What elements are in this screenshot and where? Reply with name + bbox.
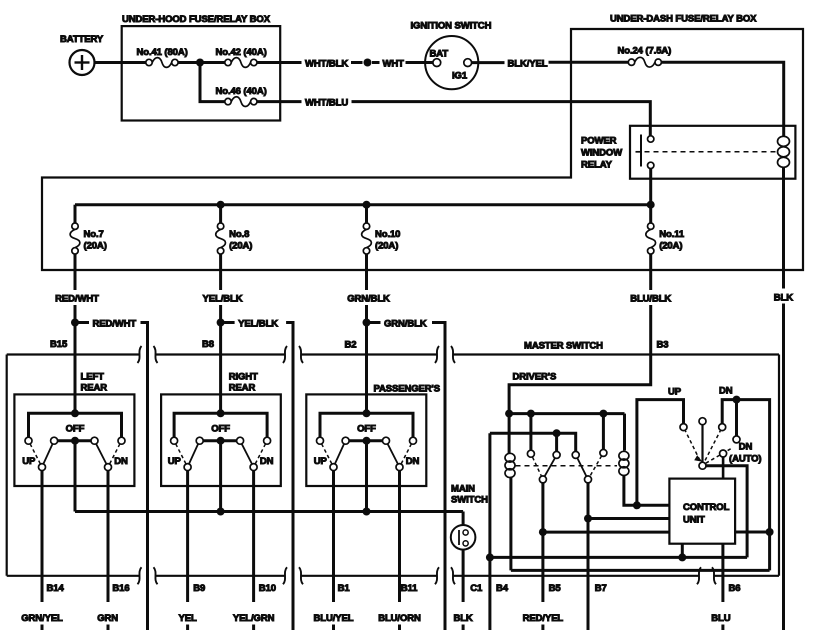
B15 label — [50, 339, 68, 350]
MAIN SWITCH label — [451, 484, 488, 506]
right rear centre node — [217, 437, 225, 445]
main switch output wire BLK — [462, 550, 465, 630]
B9 label — [193, 583, 205, 594]
svg-text:DN: DN — [114, 456, 128, 467]
band right edge (master switch) — [778, 355, 780, 576]
fuse No.11 label — [659, 229, 685, 252]
svg-text:No.11: No.11 — [659, 229, 685, 240]
right rear DN output wire — [252, 471, 255, 630]
wire fuse24 to relay coil — [661, 62, 783, 136]
WHT/BLU label — [305, 98, 348, 109]
BLK/YEL label — [508, 59, 548, 70]
svg-text:MASTER SWITCH: MASTER SWITCH — [524, 341, 603, 352]
svg-text:BLU/YEL: BLU/YEL — [314, 613, 354, 624]
svg-text:UNDER-DASH FUSE/RELAY BOX: UNDER-DASH FUSE/RELAY BOX — [610, 14, 757, 25]
svg-text:YEL/BLK: YEL/BLK — [238, 319, 278, 330]
svg-text:No.7: No.7 — [84, 229, 104, 240]
branch stub RED/WHT — [79, 321, 90, 324]
svg-text:B8: B8 — [202, 339, 214, 350]
svg-text:DRIVER'S: DRIVER'S — [513, 372, 557, 383]
splice node on WHT wire — [364, 59, 380, 67]
PASSENGER'S label — [374, 384, 440, 395]
relay coil — [778, 136, 790, 167]
left rear switch top bar — [29, 413, 122, 437]
svg-text:DN: DN — [260, 456, 274, 467]
passenger's mid contact right — [383, 437, 390, 444]
BLK label (main switch) — [453, 613, 472, 624]
B1 label — [338, 583, 351, 594]
driver contact c1 — [527, 450, 534, 457]
passenger's wiper right — [388, 444, 398, 464]
svg-text:(20A): (20A) — [84, 241, 107, 252]
svg-text:UP: UP — [314, 456, 328, 467]
svg-text:WHT: WHT — [383, 59, 405, 70]
RIGHT REAR label — [229, 372, 258, 394]
control unit bottom stub — [681, 544, 684, 558]
passenger's lower contact right — [396, 464, 403, 471]
fuse No.7 label — [84, 229, 107, 252]
svg-text:B5: B5 — [549, 583, 562, 594]
B11 label — [401, 583, 418, 594]
bus3 node B4 — [486, 553, 494, 561]
right rear switch box — [161, 394, 281, 486]
passenger's outer contact right — [410, 437, 417, 444]
UP wire bracket — [637, 400, 684, 506]
bus1 corner to right coil — [623, 414, 626, 451]
branch label RED/WHT — [93, 319, 137, 330]
YEL/GRN label — [233, 613, 275, 624]
svg-text:RED/YEL: RED/YEL — [523, 613, 564, 624]
splice node YEL/BLK — [217, 319, 225, 327]
battery B1 (+ terminal) — [70, 50, 95, 75]
wire below fuse No.11 — [649, 254, 652, 290]
right rear switch top bar — [174, 413, 267, 437]
left rear outer contact right — [118, 437, 125, 444]
wire below fuse No.10 — [365, 254, 368, 290]
left rear switch input node — [71, 409, 79, 417]
bus3 node control unit — [678, 553, 686, 561]
control unit label — [683, 502, 730, 526]
pivot output wire — [706, 466, 747, 558]
branch corner GRN/BLK — [432, 323, 445, 630]
svg-text:No.41 (80A): No.41 (80A) — [137, 47, 188, 58]
B7 label — [595, 583, 607, 594]
svg-text:(20A): (20A) — [659, 241, 682, 252]
under-dash fuse/relay box (L-shape) — [42, 29, 803, 270]
wire to splice — [351, 61, 363, 64]
passenger's DN output wire — [398, 471, 401, 630]
UP label (driver) — [668, 387, 682, 398]
passenger's dashed throw right — [401, 444, 411, 464]
BLU/ORN label — [378, 613, 421, 624]
branch corner YEL/BLK — [286, 323, 293, 630]
left rear UP label — [22, 456, 36, 467]
YEL/BLK label — [203, 294, 243, 305]
left rear UP output wire — [41, 471, 44, 630]
passenger's UP output wire — [332, 471, 335, 630]
wire battery to fuse No.41 — [95, 61, 146, 64]
right rear DN label — [260, 456, 274, 467]
left rear dashed throw left — [30, 444, 40, 464]
passenger's UP label — [314, 456, 328, 467]
driver contact c2 wire — [555, 436, 558, 451]
left rear centre node — [71, 437, 79, 445]
bus node right rear — [217, 508, 225, 516]
fuse No.41 label — [137, 47, 188, 58]
fuse No.10 label — [375, 229, 400, 252]
fuse No.11 (20A) — [646, 223, 656, 254]
B5 wire from c5 — [541, 483, 544, 630]
right rear UP output wire — [186, 471, 189, 630]
rotor pivot — [699, 462, 706, 469]
left rear centre wire to bus — [74, 444, 77, 511]
passenger's dashed throw left — [322, 444, 332, 464]
fuse No.8 stub — [219, 205, 222, 223]
driver lower contact c6 — [585, 476, 592, 483]
band bottom border break marks — [138, 567, 717, 584]
svg-text:REAR: REAR — [229, 383, 256, 394]
fuse No.46 label — [216, 86, 267, 97]
svg-text:UNDER-HOOD FUSE/RELAY BOX: UNDER-HOOD FUSE/RELAY BOX — [122, 14, 271, 25]
wire WHT/BLU to relay contact — [352, 102, 651, 136]
feed wire YEL/BLK to switch — [219, 305, 222, 413]
svg-text:SWITCH: SWITCH — [451, 495, 488, 506]
wire c6 to control unit — [588, 517, 669, 520]
B6 label — [729, 583, 741, 594]
driver dashed mech link — [516, 465, 618, 467]
UP contact — [680, 424, 687, 431]
fuse No.41 (80A) — [146, 58, 178, 68]
right rear lower contact right — [250, 464, 257, 471]
band top border — [7, 353, 779, 355]
left rear centre bar — [58, 439, 91, 442]
svg-text:WHT/BLK: WHT/BLK — [305, 59, 348, 70]
under-dash box label — [610, 14, 757, 25]
driver dashed c4-c6 — [590, 456, 602, 477]
driver dashed c1-c5 — [533, 457, 542, 476]
fuse No.42 (40A) — [225, 58, 257, 68]
passenger's centre bar — [349, 439, 382, 442]
svg-text:RED/WHT: RED/WHT — [55, 294, 99, 305]
wire WHT/BLU segment — [257, 100, 302, 103]
relay contact bottom — [648, 162, 654, 168]
svg-text:IGNITION SWITCH: IGNITION SWITCH — [411, 21, 492, 32]
RED/YEL label — [523, 613, 564, 624]
svg-text:UP: UP — [22, 456, 36, 467]
svg-text:B4: B4 — [496, 583, 509, 594]
passenger's switch box — [306, 394, 426, 486]
bus node passenger — [363, 508, 371, 516]
fuse No.8 label — [229, 229, 252, 252]
wire relay coil down (BLK) — [782, 167, 785, 630]
fuse No.10 (20A) — [362, 223, 372, 254]
main switch contact bottom — [463, 541, 468, 546]
splice node RED/WHT — [71, 319, 79, 327]
IG1 terminal — [452, 59, 472, 82]
DN label (driver) — [719, 386, 733, 397]
DN bracket node — [733, 396, 741, 404]
B14 label — [47, 583, 65, 594]
feed wire GRN/BLK to switch — [365, 305, 368, 413]
driver right coil — [619, 451, 629, 475]
rotor dashed ray to UP — [685, 430, 700, 460]
BLK label (right) — [774, 293, 793, 304]
svg-text:No.10: No.10 — [375, 229, 400, 240]
B10 label — [259, 583, 276, 594]
svg-text:GRN: GRN — [97, 613, 118, 624]
driver wiper c3-c6 — [577, 458, 586, 476]
driver bus1 — [509, 412, 624, 415]
ignition switch label — [411, 21, 492, 32]
wire fuse41 to fuse42 — [178, 61, 225, 64]
driver contact c4 wire — [602, 416, 605, 449]
svg-text:CONTROL: CONTROL — [683, 502, 730, 513]
RED/WHT label — [55, 294, 99, 305]
fuse No.8 (20A) — [216, 223, 226, 254]
svg-text:BLK/YEL: BLK/YEL — [508, 59, 548, 70]
common bus to main switch — [75, 510, 463, 513]
svg-text:OFF: OFF — [357, 424, 376, 435]
bus3 (pivot return) — [490, 556, 747, 559]
main switch bar — [458, 530, 460, 545]
svg-text:WHT/BLU: WHT/BLU — [305, 98, 348, 109]
svg-text:B16: B16 — [112, 583, 129, 594]
passenger's outer contact left — [317, 437, 324, 444]
bus1 node c4 — [599, 410, 607, 418]
svg-text:B3: B3 — [657, 340, 669, 351]
right rear switch input node — [217, 409, 225, 417]
left rear DN output wire — [107, 471, 110, 630]
svg-text:BLU/ORN: BLU/ORN — [378, 613, 421, 624]
right rear centre bar — [203, 439, 236, 442]
svg-text:UNIT: UNIT — [683, 515, 705, 526]
driver wiper c2-c5 — [545, 458, 555, 476]
svg-text:No.42 (40A): No.42 (40A) — [216, 47, 267, 58]
right rear lower contact left — [184, 464, 191, 471]
svg-text:BLU/BLK: BLU/BLK — [630, 294, 671, 305]
svg-text:B1: B1 — [338, 583, 351, 594]
left coil wire to bus4 — [509, 477, 512, 570]
neutral contact — [699, 418, 706, 425]
branch stub YEL/BLK — [224, 321, 235, 324]
WHT/BLK label — [305, 59, 348, 70]
right rear dashed throw right — [255, 444, 265, 464]
GRN/BLK label — [347, 294, 390, 305]
fuse No.24 label — [618, 46, 672, 57]
svg-text:C1: C1 — [470, 583, 483, 594]
fuse No.24 (7.5A) — [628, 57, 661, 67]
left rear switch box — [14, 394, 134, 486]
svg-text:REAR: REAR — [81, 383, 108, 394]
relay contact top — [648, 136, 654, 142]
fuse No.42 label — [216, 47, 267, 58]
BAT terminal — [430, 49, 449, 67]
relay armature bar — [636, 135, 642, 167]
B7 wire from c6 — [587, 483, 590, 630]
driver lower contact c5 — [539, 476, 546, 483]
B4 wire down — [488, 433, 491, 630]
B3 label — [657, 340, 669, 351]
bus2 node c2 — [553, 429, 561, 437]
wire c5 to control unit — [543, 531, 670, 534]
left rear mid contact right — [91, 437, 98, 444]
B8 label — [202, 339, 214, 350]
fuse No.46 (40A) — [225, 97, 257, 107]
right rear mid contact left — [196, 437, 203, 444]
svg-text:GRN/YEL: GRN/YEL — [21, 613, 63, 624]
fuse bus in under-dash box — [75, 203, 651, 206]
svg-text:No.24 (7.5A): No.24 (7.5A) — [618, 46, 672, 57]
auto contact E — [720, 450, 727, 457]
BLU/BLK label — [630, 294, 671, 305]
main switch contact top — [463, 530, 468, 535]
left rear lower contact left — [39, 464, 46, 471]
wire E to control unit — [722, 457, 725, 479]
right rear mid contact right — [237, 437, 244, 444]
LEFT REAR label — [81, 372, 108, 394]
fuse No.10 stub — [365, 205, 368, 223]
driver contact c2 — [553, 451, 560, 458]
svg-text:MAIN: MAIN — [451, 484, 475, 495]
junction node after fuse No.41 — [196, 59, 204, 67]
svg-text:No.8: No.8 — [229, 229, 249, 240]
driver contact c4 — [600, 449, 607, 456]
bus junction at No.8 — [217, 201, 225, 209]
neutral contact stem — [701, 425, 703, 463]
splice node GRN/BLK — [363, 319, 371, 327]
svg-text:RIGHT: RIGHT — [229, 372, 258, 383]
DN auto drop — [735, 400, 738, 436]
MASTER SWITCH label — [524, 341, 603, 352]
bus4 (coil to DN) — [511, 569, 770, 572]
under-hood box label — [122, 14, 271, 25]
DN contact — [719, 424, 726, 431]
B5 node — [539, 528, 547, 536]
passenger's OFF label — [357, 424, 376, 435]
control unit box — [669, 479, 735, 544]
driver bus2 — [490, 433, 576, 451]
svg-text:DN: DN — [739, 442, 753, 453]
ignition switch body — [425, 36, 478, 89]
branch label GRN/BLK — [384, 319, 427, 330]
branch label YEL/BLK — [238, 319, 278, 330]
bus1 node B3 — [505, 410, 513, 418]
B4 label — [496, 583, 509, 594]
fuse No.11 stub — [649, 205, 652, 223]
svg-text:B15: B15 — [50, 339, 68, 350]
svg-text:BAT: BAT — [430, 49, 449, 60]
driver contact c1 wire — [529, 416, 532, 450]
passenger's switch top bar — [320, 413, 413, 437]
right rear wiper left — [189, 444, 198, 464]
driver contact c3 — [572, 451, 579, 458]
svg-text:OFF: OFF — [66, 424, 85, 435]
BLU label — [711, 613, 730, 624]
main switch body — [451, 525, 476, 550]
svg-text:YEL/GRN: YEL/GRN — [233, 613, 275, 624]
under-hood fuse/relay box — [122, 26, 281, 120]
BLU/YEL label — [314, 613, 354, 624]
svg-text:B2: B2 — [345, 340, 357, 351]
B7 node — [584, 515, 592, 523]
power window relay label — [581, 136, 622, 171]
left rear DN label — [114, 456, 128, 467]
svg-text:BLU: BLU — [711, 613, 730, 624]
svg-text:UP: UP — [168, 456, 182, 467]
svg-text:UP: UP — [668, 387, 682, 398]
right coil wire down — [624, 475, 670, 505]
rotor dashed ray to AUTO — [706, 448, 732, 463]
svg-text:(AUTO): (AUTO) — [729, 454, 761, 465]
B2 label — [345, 340, 357, 351]
svg-text:DN: DN — [406, 456, 420, 467]
svg-text:LEFT: LEFT — [81, 372, 105, 383]
node control-right DN — [766, 528, 774, 536]
GRN label — [97, 613, 118, 624]
passenger's centre wire to bus — [365, 444, 368, 511]
band left edge — [6, 355, 8, 576]
bus junction at No.10 — [363, 201, 371, 209]
YEL label — [179, 613, 197, 624]
svg-text:RELAY: RELAY — [581, 160, 613, 171]
svg-text:YEL/BLK: YEL/BLK — [203, 294, 243, 305]
WHT label — [383, 59, 405, 70]
right rear outer contact left — [171, 437, 178, 444]
GRN/YEL label — [21, 613, 63, 624]
passenger's wiper left — [335, 444, 344, 464]
band bottom border — [7, 575, 779, 577]
svg-text:B7: B7 — [595, 583, 607, 594]
svg-text:PASSENGER'S: PASSENGER'S — [374, 384, 440, 395]
svg-text:(20A): (20A) — [229, 241, 252, 252]
branch corner RED/WHT — [141, 323, 148, 630]
svg-text:IG1: IG1 — [452, 71, 468, 82]
wire below fuse No.8 — [219, 254, 222, 290]
power window relay box — [630, 126, 795, 179]
left rear lower contact right — [105, 464, 112, 471]
svg-text:No.46 (40A): No.46 (40A) — [216, 86, 267, 97]
battery label — [60, 34, 104, 45]
svg-text:BATTERY: BATTERY — [60, 34, 104, 45]
B6 wire — [721, 544, 724, 630]
band top border break marks — [138, 346, 456, 363]
svg-text:B9: B9 — [193, 583, 205, 594]
left rear outer contact left — [25, 437, 32, 444]
branch stub GRN/BLK — [370, 321, 381, 324]
svg-text:GRN/BLK: GRN/BLK — [347, 294, 390, 305]
B16 label — [112, 583, 129, 594]
svg-text:B10: B10 — [259, 583, 276, 594]
right rear UP label — [168, 456, 182, 467]
svg-text:(20A): (20A) — [375, 241, 398, 252]
svg-text:BLK: BLK — [453, 613, 472, 624]
relay dashed link — [645, 151, 776, 153]
feed wire B3 to driver's switch — [509, 305, 651, 414]
wire WHT/BLK segment — [257, 61, 302, 64]
svg-text:GRN/BLK: GRN/BLK — [384, 319, 427, 330]
wire relay contact to fuse bus — [649, 169, 652, 205]
DN (AUTO) label — [729, 442, 761, 465]
passenger's centre node — [363, 437, 371, 445]
svg-text:BLK: BLK — [774, 293, 793, 304]
passenger's mid contact left — [342, 437, 349, 444]
bus drop to main switch — [462, 512, 465, 526]
svg-text:WINDOW: WINDOW — [581, 148, 622, 159]
bus1 node c1 — [527, 410, 535, 418]
svg-text:DN: DN — [719, 386, 733, 397]
svg-text:POWER: POWER — [581, 136, 617, 147]
left rear OFF label — [66, 424, 85, 435]
